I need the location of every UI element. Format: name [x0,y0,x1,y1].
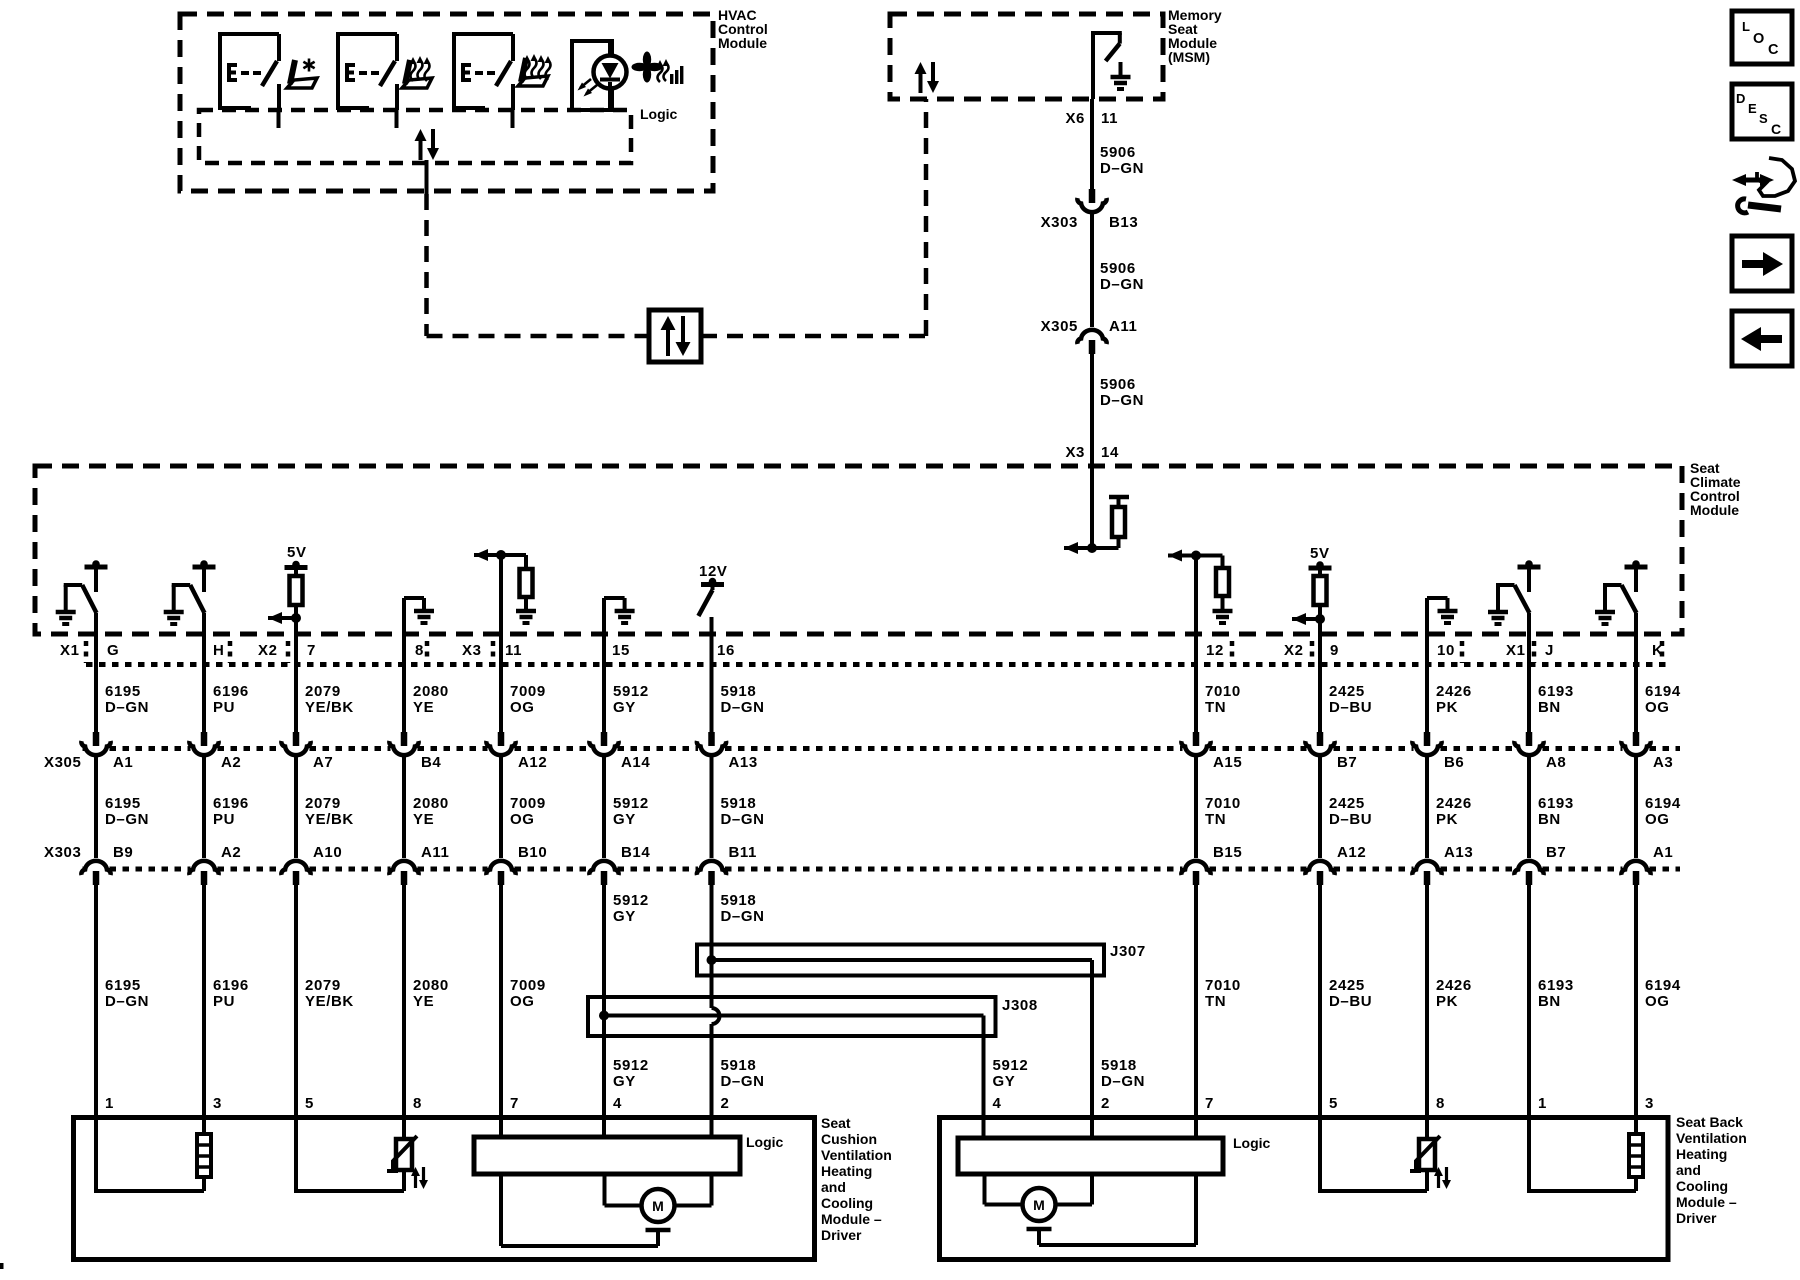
svg-text:4: 4 [993,1095,1002,1112]
logic block (left module) [474,1137,740,1174]
svg-text:OG: OG [1645,811,1670,828]
connector X305 terminal x=1196 [1193,732,1200,746]
wire segment x=296 SCCM to X305 [294,618,298,732]
icon: forward arrow [1732,236,1792,291]
svg-text:Cushion: Cushion [821,1131,877,1147]
connector X305 terminal x=711.5 [708,732,715,746]
connector X303 terminal x=296 [281,861,310,875]
svg-text:X3: X3 [1065,444,1085,461]
svg-text:2425: 2425 [1329,683,1365,700]
svg-text:Module: Module [1690,502,1739,518]
wire segment x=204 X303 to module [202,884,206,1117]
connector row X305 dotted line [83,746,86,751]
wire segment x=604 SCCM to X305 [602,598,606,732]
svg-text:9: 9 [1330,642,1339,659]
svg-text:X303: X303 [1041,214,1078,231]
wire segment x=501 X303 to module [499,884,503,1117]
svg-text:YE/BK: YE/BK [305,699,354,716]
svg-text:B10: B10 [518,844,547,861]
svg-text:X3: X3 [462,642,482,659]
svg-text:14: 14 [1101,444,1119,461]
svg-text:A3: A3 [1653,754,1673,771]
ground, pin X3-15 [604,596,625,600]
svg-text:5918: 5918 [721,683,757,700]
svg-text:GY: GY [613,699,636,716]
svg-text:2: 2 [1101,1095,1110,1112]
svg-text:6194: 6194 [1645,795,1681,812]
icon LOC [1732,11,1792,64]
wire segment x=1427 SCCM to X305 [1425,598,1429,732]
svg-text:A12: A12 [518,754,547,771]
svg-text:11: 11 [505,642,522,659]
svg-text:GY: GY [613,811,636,828]
svg-text:5906: 5906 [1100,144,1136,161]
wire segment x=1427 X305 to X303 [1425,757,1429,858]
svg-text:B9: B9 [113,844,133,861]
svg-text:OG: OG [510,699,535,716]
connector X303 terminal x=501 [486,861,515,875]
wire 5906 D-GN (X305 to SCCM X3-14) [1090,353,1094,548]
wire segment x=96 X303 to module [94,884,98,1117]
svg-text:A11: A11 [421,844,450,861]
wire segment x=1636 X303 to module [1634,884,1638,1117]
svg-text:D–BU: D–BU [1329,699,1372,716]
svg-text:5: 5 [1329,1095,1338,1112]
wire segment x=501 X305 to X303 [499,757,503,858]
svg-text:7: 7 [1205,1095,1214,1112]
svg-text:H: H [213,642,224,659]
svg-text:12V: 12V [699,563,728,580]
blower motor M (right module) [983,1174,987,1205]
motor case connection (left module) [646,1228,671,1233]
switch S1 (seat cooling request) [218,34,222,110]
svg-text:A14: A14 [621,754,650,771]
svg-text:Heating: Heating [821,1163,872,1179]
svg-text:Cooling: Cooling [821,1195,873,1211]
svg-text:6195: 6195 [105,795,141,812]
svg-text:TN: TN [1205,811,1226,828]
icon DESC [1732,84,1792,139]
svg-text:GY: GY [613,1073,636,1090]
svg-text:6195: 6195 [105,977,141,994]
svg-text:5912: 5912 [613,795,649,812]
seat icon (cooled seat) [290,60,295,84]
svg-text:A12: A12 [1337,844,1366,861]
svg-text:7: 7 [307,642,316,659]
svg-text:and: and [1676,1162,1701,1178]
motor case connection (right module) [1027,1227,1052,1232]
svg-text:S: S [1759,111,1768,126]
svg-text:B7: B7 [1546,844,1566,861]
svg-text:Module: Module [718,35,767,51]
wire segment x=404 X305 to X303 [402,757,406,858]
in-line connector X303 pin B13 [1089,189,1096,203]
svg-text:5918: 5918 [1101,1057,1137,1074]
svg-text:D–GN: D–GN [105,699,149,716]
connector X305 terminal x=204 [201,732,208,746]
connector X303 terminal x=204 [189,861,218,875]
svg-text:3: 3 [213,1095,222,1112]
in-line connector X305 pin A11 [1077,330,1106,344]
harness connector dotted row [86,662,1668,667]
svg-text:A7: A7 [313,754,333,771]
svg-text:D–GN: D–GN [721,1073,765,1090]
svg-text:6193: 6193 [1538,977,1574,994]
logic block (right module) [958,1138,1223,1174]
svg-text:Driver: Driver [821,1227,862,1243]
light arrows [586,85,597,94]
svg-text:5906: 5906 [1100,260,1136,277]
svg-text:D: D [1736,91,1745,106]
wire 5906 D-GN (MSM to X303) [1090,99,1094,189]
svg-text:BN: BN [1538,811,1561,828]
wire segment x=1196 X303 to module [1194,884,1198,1117]
svg-text:2426: 2426 [1436,795,1472,812]
svg-text:C: C [1771,121,1781,137]
ground, pin X2-10 [1427,596,1448,600]
svg-text:M: M [652,1198,664,1214]
wire segment x=711.5 X303 to module (hops over J308 splice line) [710,884,714,1008]
connector X305 terminal x=96 [93,732,100,746]
svg-text:D–GN: D–GN [1100,160,1144,177]
svg-text:2080: 2080 [413,683,449,700]
svg-text:X2: X2 [1284,642,1304,659]
Seat Climate Control Module box [35,466,1682,634]
switch to ground, pin X1-H [193,565,216,570]
svg-text:8: 8 [415,642,424,659]
heating element (pins 1-3) [202,1117,206,1134]
signal junction + resistor to ground, pin X3-12 [1191,551,1201,561]
svg-text:YE: YE [413,699,434,716]
svg-text:PK: PK [1436,993,1458,1010]
wire segment x=1196 SCCM to X305 [1194,556,1198,733]
Seat Back Ventilation Heating and Cooling Module - Driver box [940,1118,1669,1260]
switch S3 (seat vent request) [452,34,456,110]
connector X303 terminal x=604 [589,861,618,875]
svg-text:A1: A1 [1653,844,1673,861]
svg-text:X303: X303 [44,844,81,861]
wire segment x=96 SCCM to X305 [94,613,98,732]
connector X303 terminal x=1529 [1514,861,1543,875]
svg-text:BN: BN [1538,993,1561,1010]
connector X303 terminal x=1636 [1621,861,1650,875]
svg-text:2425: 2425 [1329,795,1365,812]
wire segment x=1320 SCCM to X305 [1318,619,1322,732]
svg-text:7010: 7010 [1205,683,1241,700]
switch to ground, pin X1-J [1518,565,1541,570]
svg-text:11: 11 [1101,110,1118,127]
svg-text:G: G [107,642,119,659]
svg-text:6196: 6196 [213,795,249,812]
svg-text:D–GN: D–GN [721,699,765,716]
switch to ground, pin X1-G [85,565,108,570]
wire segment x=204 SCCM to X305 [202,613,206,732]
svg-text:2426: 2426 [1436,977,1472,994]
svg-text:16: 16 [717,642,735,659]
wire segment x=1320 X303 to module [1318,884,1322,1117]
svg-text:M: M [1033,1197,1045,1213]
signal junction + resistor to ground, pin X3-11 [496,550,506,560]
svg-text:Seat Back: Seat Back [1676,1114,1743,1130]
logic box (HVAC) [199,110,631,163]
switch to ground, pin X1-K [1625,565,1648,570]
temperature sensor / thermistor (pins 5-8, right module) [1425,1117,1429,1139]
wire segment x=1529 X305 to X303 [1527,757,1531,858]
svg-text:O: O [1753,31,1764,47]
svg-text:5918: 5918 [721,892,757,909]
seat icon (heated/vented seat) [521,58,526,82]
svg-text:2425: 2425 [1329,977,1365,994]
svg-text:5912: 5912 [613,683,649,700]
svg-text:B7: B7 [1337,754,1357,771]
svg-text:PK: PK [1436,699,1458,716]
svg-text:6196: 6196 [213,683,249,700]
svg-text:1: 1 [1538,1095,1547,1112]
ground, pin X2-8 [404,596,424,600]
svg-text:D–GN: D–GN [105,811,149,828]
connector X305 terminal x=604 [601,732,608,746]
svg-text:PU: PU [213,699,235,716]
wire segment x=1529 SCCM to X305 [1527,613,1531,732]
svg-text:YE/BK: YE/BK [305,993,354,1010]
MSM ground switch [1091,31,1095,99]
seat icon (heated cushion) [405,60,410,84]
svg-text:J: J [1545,642,1554,659]
wire segment x=1636 SCCM to X305 [1634,613,1638,732]
svg-text:YE/BK: YE/BK [305,811,354,828]
wire segment x=1529 X303 to module [1527,884,1531,1117]
wire from logic to serial data link [425,160,429,196]
svg-text:Ventilation: Ventilation [1676,1130,1747,1146]
svg-text:A11: A11 [1109,318,1138,335]
svg-text:D–GN: D–GN [1100,392,1144,409]
connector X303 terminal x=1427 [1412,861,1441,875]
wire segment x=96 X305 to X303 [94,757,98,858]
connector X305 terminal x=1529 [1526,732,1533,746]
wire segment x=404 X303 to module [402,884,406,1117]
svg-text:7: 7 [510,1095,519,1112]
svg-text:A1: A1 [113,754,133,771]
indicator LED box [572,41,612,110]
svg-text:6193: 6193 [1538,795,1574,812]
connector X305 terminal x=1636 [1633,732,1640,746]
svg-text:Logic: Logic [1233,1135,1271,1151]
svg-text:(MSM): (MSM) [1168,49,1210,65]
svg-text:B15: B15 [1213,844,1242,861]
svg-text:2426: 2426 [1436,683,1472,700]
Seat Cushion Ventilation Heating and Cooling Module - Driver box [74,1118,815,1260]
svg-text:5V: 5V [287,544,307,561]
svg-text:D–BU: D–BU [1329,993,1372,1010]
dotted connector-group separators [84,641,89,663]
svg-text:X2: X2 [258,642,278,659]
svg-text:J307: J307 [1110,943,1146,960]
svg-text:Driver: Driver [1676,1210,1717,1226]
LED (photo) symbol [608,41,612,56]
svg-text:X1: X1 [60,642,80,659]
svg-text:Cooling: Cooling [1676,1178,1728,1194]
wire segment x=404 SCCM to X305 [402,598,406,732]
svg-text:X1: X1 [1506,642,1526,659]
connector X305 terminal x=404 [401,732,408,746]
svg-text:Ventilation: Ventilation [821,1147,892,1163]
svg-text:B4: B4 [421,754,441,771]
Memory Seat Module (MSM) box [890,14,1163,99]
svg-text:15: 15 [612,642,630,659]
svg-text:Logic: Logic [640,106,678,122]
wire segment x=1636 X305 to X303 [1634,757,1638,858]
svg-text:12: 12 [1206,642,1224,659]
svg-text:7010: 7010 [1205,795,1241,812]
svg-text:2079: 2079 [305,683,341,700]
svg-text:10: 10 [1437,642,1455,659]
svg-text:B6: B6 [1444,754,1464,771]
svg-text:2079: 2079 [305,977,341,994]
svg-text:B13: B13 [1109,214,1138,231]
svg-text:3: 3 [1645,1095,1654,1112]
connector X303 terminal x=1320 [1305,861,1334,875]
svg-text:1: 1 [105,1095,114,1112]
svg-text:D–GN: D–GN [721,811,765,828]
svg-text:6195: 6195 [105,683,141,700]
svg-text:2080: 2080 [413,795,449,812]
svg-text:A15: A15 [1213,754,1242,771]
svg-text:7010: 7010 [1205,977,1241,994]
wire segment x=296 X305 to X303 [294,757,298,858]
page edge mark [0,1263,4,1269]
svg-text:X305: X305 [1041,318,1078,335]
splice pack J308 [588,997,996,1036]
internal termination of serial data wire: junction, arrow, pull-up resistor [1087,543,1097,553]
svg-text:2080: 2080 [413,977,449,994]
svg-text:L: L [1742,19,1750,34]
HVAC Control Module box [180,14,713,191]
wire segment x=204 X305 to X303 [202,757,206,858]
blower motor M (left module) [603,1174,607,1206]
svg-text:TN: TN [1205,699,1226,716]
svg-text:GY: GY [613,908,636,925]
svg-text:D–GN: D–GN [1101,1073,1145,1090]
wire segment x=604 X305 to X303 [602,757,606,858]
splice pack J307 [697,945,1104,976]
connector X303 terminal x=96 [81,861,110,875]
svg-text:OG: OG [1645,993,1670,1010]
svg-text:TN: TN [1205,993,1226,1010]
svg-text:PU: PU [213,993,235,1010]
svg-text:GY: GY [993,1073,1016,1090]
wire segment x=501 SCCM to X305 [499,555,503,732]
svg-text:YE: YE [413,811,434,828]
svg-text:A10: A10 [313,844,342,861]
wire 5906 D-GN (X303 to X305) [1090,214,1094,327]
svg-text:X6: X6 [1065,110,1085,127]
fan / airflow icon [643,52,651,68]
svg-text:J308: J308 [1002,997,1038,1014]
svg-text:D–GN: D–GN [721,908,765,925]
svg-text:Seat: Seat [821,1115,851,1131]
svg-text:Heating: Heating [1676,1146,1727,1162]
svg-text:A8: A8 [1546,754,1566,771]
svg-text:6193: 6193 [1538,683,1574,700]
svg-text:A13: A13 [729,754,758,771]
svg-text:PU: PU [213,811,235,828]
connector X305 terminal x=1427 [1424,732,1431,746]
serial data dashed link (HVAC to MSM) [424,194,429,336]
svg-text:2079: 2079 [305,795,341,812]
heating element (pins 1-3, right module) [1634,1117,1638,1134]
svg-text:A2: A2 [221,844,241,861]
connector X305 terminal x=1320 [1317,732,1324,746]
svg-text:6194: 6194 [1645,977,1681,994]
svg-text:5912: 5912 [613,1057,649,1074]
svg-text:B11: B11 [729,844,758,861]
svg-text:7009: 7009 [510,795,546,812]
svg-text:OG: OG [510,811,535,828]
switch S2 (seat heating request) [336,34,340,110]
temperature sensor / thermistor (pins 5-8) [402,1117,406,1139]
svg-text:OG: OG [510,993,535,1010]
serial data arrows in HVAC logic [419,139,423,160]
svg-text:D–BU: D–BU [1329,811,1372,828]
svg-text:and: and [821,1179,846,1195]
svg-text:6194: 6194 [1645,683,1681,700]
svg-text:A13: A13 [1444,844,1473,861]
svg-text:5: 5 [305,1095,314,1112]
svg-text:E: E [1748,101,1757,116]
serial data arrows in MSM [919,72,923,93]
snowflake [308,59,311,72]
svg-text:8: 8 [1436,1095,1445,1112]
wire segment x=1427 X303 to module [1425,884,1429,1117]
connector X303 terminal x=1196 [1181,861,1210,875]
svg-text:5912: 5912 [993,1057,1029,1074]
svg-text:PK: PK [1436,811,1458,828]
wire segment x=711.5 X305 to X303 [710,757,714,858]
svg-text:5918: 5918 [721,795,757,812]
wire segment x=604 X303 to module [602,884,606,1117]
svg-text:7009: 7009 [510,683,546,700]
svg-text:A2: A2 [221,754,241,771]
svg-text:Module –: Module – [1676,1194,1737,1210]
connector X303 terminal x=404 [389,861,418,875]
svg-text:5V: 5V [1310,545,1330,562]
serial data symbol box [649,310,701,362]
icon: location arrows with wrench [1742,178,1764,183]
svg-text:OG: OG [1645,699,1670,716]
svg-text:4: 4 [613,1095,622,1112]
svg-text:Logic: Logic [746,1134,784,1150]
svg-text:7009: 7009 [510,977,546,994]
svg-text:Module –: Module – [821,1211,882,1227]
svg-text:5918: 5918 [721,1057,757,1074]
svg-text:BN: BN [1538,699,1561,716]
svg-text:6196: 6196 [213,977,249,994]
connector X305 terminal x=296 [293,732,300,746]
svg-text:8: 8 [413,1095,422,1112]
icon: back arrow [1732,311,1792,366]
svg-text:B14: B14 [621,844,650,861]
connector X303 terminal x=711.5 [697,861,726,875]
svg-text:C: C [1768,42,1779,58]
svg-text:YE: YE [413,993,434,1010]
wire segment x=1320 X305 to X303 [1318,757,1322,858]
svg-text:5906: 5906 [1100,376,1136,393]
svg-text:X305: X305 [44,754,81,771]
svg-text:D–GN: D–GN [105,993,149,1010]
wire segment x=711.5 SCCM to X305 [710,617,714,732]
svg-text:D–GN: D–GN [1100,276,1144,293]
svg-text:2: 2 [721,1095,730,1112]
